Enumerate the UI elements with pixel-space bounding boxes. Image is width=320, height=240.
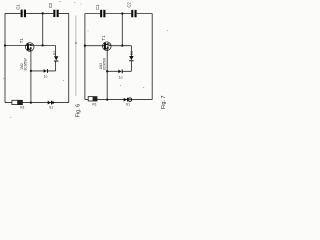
svg-text:Fig. 6: Fig. 6	[75, 104, 81, 117]
svg-text:T1: T1	[101, 35, 106, 41]
node: Fig7 junction top rail	[121, 12, 123, 14]
scan noise specks	[3, 1, 168, 118]
battery B1 (Fig7 bottom box)	[88, 97, 97, 101]
wire: Fig7 base line (mid rail)	[85, 45, 131, 47]
node: Fig7 junction emitter/bottom	[106, 98, 108, 100]
svg-text:R2: R2	[130, 51, 134, 55]
diode D1 (Fig7, y71 line)	[118, 70, 122, 74]
node: Fig7 junction emitter/y71	[106, 70, 108, 72]
diode D2 (Fig7, vertical branch)	[129, 56, 133, 61]
svg-text:1M2: 1M2	[99, 63, 103, 70]
wire: Fig6 right rail	[68, 13, 70, 102]
wire: Fig6 emitter wire down	[30, 51, 32, 103]
diode D3 with lamp (Fig7 bottom)	[124, 98, 128, 102]
wire: Fig7 bottom rail	[85, 99, 152, 101]
svg-text:C1: C1	[95, 4, 100, 10]
lamp circle (Fig7 bottom)	[128, 98, 132, 102]
svg-text:R2: R2	[53, 51, 57, 55]
wire: Fig7 horizontal line y71	[107, 70, 131, 72]
svg-text:Fig. 7: Fig. 7	[161, 96, 167, 109]
wire: Fig7 outer faint left line	[75, 16, 77, 97]
svg-text:2C9/5W: 2C9/5W	[24, 58, 28, 71]
wire: Fig6 base line (mid rail)	[5, 45, 56, 47]
svg-text:C2: C2	[126, 2, 131, 8]
capacitor C1 (Fig6)	[21, 10, 26, 18]
wire: Fig7 vertical link top-to-mid	[121, 14, 123, 46]
capacitor C2 (Fig6)	[53, 10, 58, 17]
wire: Fig7 left rail	[84, 14, 86, 100]
svg-text:1o: 1o	[119, 76, 123, 80]
svg-text:C2: C2	[48, 2, 53, 8]
transistor T1 (Fig6)	[25, 43, 34, 52]
capacitor C1 (Fig7)	[100, 10, 105, 17]
node: Fig6 junction left rail / base line	[4, 44, 6, 46]
node: Fig6 junction mid	[41, 44, 43, 46]
wire: Fig7 branch down from mid corner	[130, 46, 132, 72]
diode D2 (Fig6, vertical branch)	[54, 56, 58, 61]
wire: Fig6 horizontal line y71	[31, 70, 56, 72]
node: Fig6 junction emitter/y71	[30, 70, 32, 72]
wire: Fig6 branch down from mid corner	[55, 46, 57, 71]
diode D3 with dot (Fig6 bottom)	[48, 101, 55, 105]
svg-text:S1: S1	[126, 102, 130, 106]
svg-text:C1: C1	[16, 4, 21, 10]
wire: Fig6 bottom rail	[5, 102, 69, 104]
wire: Fig7 top rail	[85, 13, 152, 15]
wire: Fig6 vertical link top-to-mid	[42, 13, 44, 45]
capacitor C2 (Fig7)	[131, 10, 136, 17]
svg-text:1o: 1o	[44, 74, 48, 78]
node: Fig6 junction top rail	[42, 12, 44, 14]
transistor T1 (Fig7)	[103, 42, 112, 51]
svg-text:2C9/5W: 2C9/5W	[102, 57, 106, 70]
wire: Fig7 emitter wire down	[106, 50, 108, 99]
svg-text:R1: R1	[92, 102, 96, 106]
node: Fig7 junction mid	[121, 44, 123, 46]
node: smudge on faint line	[75, 42, 77, 44]
wire: Fig6 top rail	[5, 12, 69, 14]
wire: Fig7 right rail	[151, 14, 153, 100]
node: Fig6 junction emitter/bottom	[30, 101, 32, 103]
svg-text:S1: S1	[49, 105, 53, 109]
svg-text:R1: R1	[20, 106, 24, 110]
svg-text:1M2: 1M2	[20, 63, 24, 70]
diode D1 (Fig6, y71 line)	[44, 69, 48, 73]
wire: Fig6 left rail	[4, 13, 6, 102]
battery B1 (Fig6 bottom box)	[12, 100, 23, 104]
node: Fig7 junction left rail / base line	[84, 45, 86, 47]
svg-text:T1: T1	[19, 38, 24, 44]
